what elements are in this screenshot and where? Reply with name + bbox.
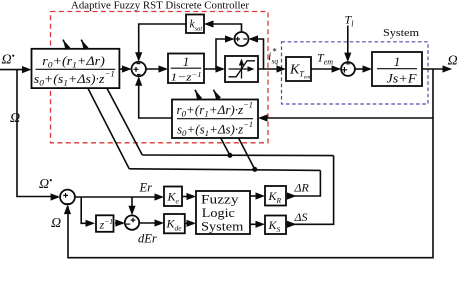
arrow into torque sum left xyxy=(332,65,342,72)
wire: delay output to sum S5 xyxy=(115,222,123,224)
arrow into bottom sum S4 left xyxy=(51,193,61,200)
svg-text:s0+(s1+Δs)·z−1: s0+(s1+Δs)·z−1 xyxy=(34,69,115,87)
wire: branch down into delay block xyxy=(81,197,93,223)
wire: plant output with speed feedback junction xyxy=(422,68,451,70)
sum signs S4: plus upper-left, minus bottom xyxy=(63,193,68,198)
arrow into delay block xyxy=(86,220,96,227)
arrow into sum S1 left xyxy=(122,65,132,72)
arrow into K_S xyxy=(256,221,266,228)
wire: torque sum to plant block xyxy=(355,68,370,70)
wire: speed feedback down right side and along bottom to bottom sum xyxy=(68,69,433,258)
arrow into block C right (pointing left) xyxy=(258,114,268,121)
arrow into K_e xyxy=(155,193,165,200)
svg-text:ΔR: ΔR xyxy=(294,180,310,194)
sum signs S1: plus left, minus top, minus bottom xyxy=(134,67,139,72)
sum S4 speed error xyxy=(60,190,75,205)
wire: Delta S diagonal into block A (shaft) xyxy=(81,40,142,155)
wire: Delta R diagonal into block A (shaft) xyxy=(63,40,129,169)
block K_R xyxy=(265,186,286,206)
svg-text:Ω: Ω xyxy=(10,111,20,126)
svg-text:1: 1 xyxy=(183,54,190,69)
svg-text:ΔS: ΔS xyxy=(294,210,308,224)
block K_Tem xyxy=(286,57,311,81)
wire: Delta R horizontal run xyxy=(129,169,320,171)
wire: Delta R diagonal into block C (shaft) xyxy=(214,90,255,170)
wire: k_sat output down into sum S1 top xyxy=(139,24,186,60)
arrow into S1 top (pointing down) xyxy=(135,52,142,62)
wire: Delta S diagonal into block C (shaft) xyxy=(195,90,230,156)
block k_sat xyxy=(186,15,204,34)
svg-text:1: 1 xyxy=(394,54,401,69)
block K_de xyxy=(164,214,185,233)
sum S3 torque xyxy=(341,62,355,76)
wire: Delta S horizontal run xyxy=(142,154,333,157)
arrowheads xyxy=(22,20,452,228)
arrow speed output xyxy=(443,65,453,72)
block plant 1/(Js+F) xyxy=(372,52,422,86)
svg-text:r0+(r1+Δr)·z−1: r0+(r1+Δr)·z−1 xyxy=(177,101,253,119)
block delay z^-1 xyxy=(96,215,114,232)
svg-text:Ω: Ω xyxy=(51,216,61,231)
svg-text:System: System xyxy=(201,220,244,234)
svg-text:Adaptive Fuzzy RST Discrete Co: Adaptive Fuzzy RST Discrete Controller xyxy=(71,1,250,12)
wire: anti-windup sum output to k_sat xyxy=(206,24,242,32)
svg-text:Js+F: Js+F xyxy=(387,71,418,86)
svg-text:Er: Er xyxy=(139,180,153,194)
junction dot on Delta R run xyxy=(252,167,257,172)
system boundary (blue dashed) xyxy=(282,42,429,104)
arrow into plant block xyxy=(363,65,373,72)
junction dot on Delta S run xyxy=(227,153,232,158)
arrow into integrator xyxy=(159,65,169,72)
block K_e xyxy=(164,187,182,207)
sum S5 error difference xyxy=(125,215,139,229)
block saturation xyxy=(225,56,258,82)
sum signs S5: plus top, minus left xyxy=(131,218,136,223)
arrow after K_R xyxy=(287,192,297,199)
wire: K_Tem output to torque sum xyxy=(311,68,340,70)
arrow after K_S xyxy=(287,221,297,228)
svg-text:Ω: Ω xyxy=(448,54,458,69)
arrow K_de into fuzzy xyxy=(187,220,197,227)
wire: integrator to saturation xyxy=(204,68,223,70)
wire: K_e output into fuzzy block xyxy=(182,196,194,198)
arrow into saturation xyxy=(216,65,226,72)
sum signs S3: big plus left-center, minus top xyxy=(342,67,348,73)
controller boundary (red dashed) xyxy=(51,12,269,143)
svg-text:s0+(s1+Δs)·z−1: s0+(s1+Δs)·z−1 xyxy=(177,120,253,138)
wire: Er branch down into sum S5 top xyxy=(131,197,133,213)
block K_S xyxy=(265,216,286,235)
svg-text:Fuzzy: Fuzzy xyxy=(201,193,239,207)
wire: tap up to anti-windup sum left input xyxy=(216,39,233,69)
wire: block A output to sum S1 xyxy=(119,68,130,70)
wire: tap saturation output up to anti-windup sum right input xyxy=(250,39,263,69)
wire: speed reference input xyxy=(0,69,29,71)
svg-text:Logic: Logic xyxy=(202,206,236,220)
arrow Delta S diag into block A top xyxy=(79,38,89,50)
arrow Delta R diag into block A top xyxy=(61,38,71,50)
arrow into block A xyxy=(22,66,32,73)
arrow Delta S diag into block C top xyxy=(193,89,202,101)
arrow into bottom sum S4 from below (pointing up) xyxy=(64,205,71,215)
arrow into S2 right (pointing left) xyxy=(249,35,259,42)
block A: adaptive RST forward block xyxy=(32,49,120,88)
block integrator 1/(1-z^-1) xyxy=(168,54,204,84)
svg-text:sq: sq xyxy=(272,57,279,66)
arrow Delta R diag into block C top xyxy=(211,88,221,100)
wire: K_de output into fuzzy block xyxy=(185,222,194,224)
block fuzzy logic system xyxy=(196,191,250,234)
wire: fuzzy block output to K_R xyxy=(250,195,263,197)
wire: fuzzy block output to K_S xyxy=(250,223,263,225)
svg-text:*: * xyxy=(272,47,277,57)
wire: block C output to sum S1 bottom xyxy=(139,78,172,118)
wire: K_S output riser (Delta S) xyxy=(286,156,334,225)
wire: reference branch down to bottom sum xyxy=(17,70,58,197)
block C: adaptive RST feedback block xyxy=(172,100,258,139)
arrow into k_sat right (pointing left) xyxy=(204,20,214,27)
arrow load torque into sum top (pointing down) xyxy=(344,53,351,63)
svg-text:System: System xyxy=(383,27,419,39)
wire: sum S5 output to K_de xyxy=(140,222,163,224)
wire: sum S1 to integrator xyxy=(146,68,166,70)
saturation symbol inside block xyxy=(229,60,256,79)
wire: bottom sum S4 output to K_e (Er line) xyxy=(76,196,163,198)
sum S1 xyxy=(132,62,146,76)
arrow into S2 left xyxy=(225,35,235,42)
arrow into K_de xyxy=(155,219,165,226)
wire: speed feedback into block C right side xyxy=(260,117,433,119)
arrow into sum S5 left xyxy=(115,219,125,226)
wire: saturation output to K_Tem xyxy=(258,68,284,70)
svg-text:dEr: dEr xyxy=(138,232,157,246)
arrow K_e into fuzzy xyxy=(187,193,197,200)
fraction bars xyxy=(36,68,418,119)
wire: K_R output riser (Delta R) xyxy=(286,170,320,196)
arrow into S1 bottom (pointing up) xyxy=(135,76,142,86)
arrow into K_Tem xyxy=(277,65,287,72)
arrow into K_R xyxy=(256,192,266,199)
wire: load torque input xyxy=(347,26,349,61)
sum S2 anti-windup xyxy=(235,32,249,46)
sum signs S2: plus left, minus right xyxy=(235,37,240,42)
arrow into sum S5 top (pointing down) xyxy=(128,206,135,216)
